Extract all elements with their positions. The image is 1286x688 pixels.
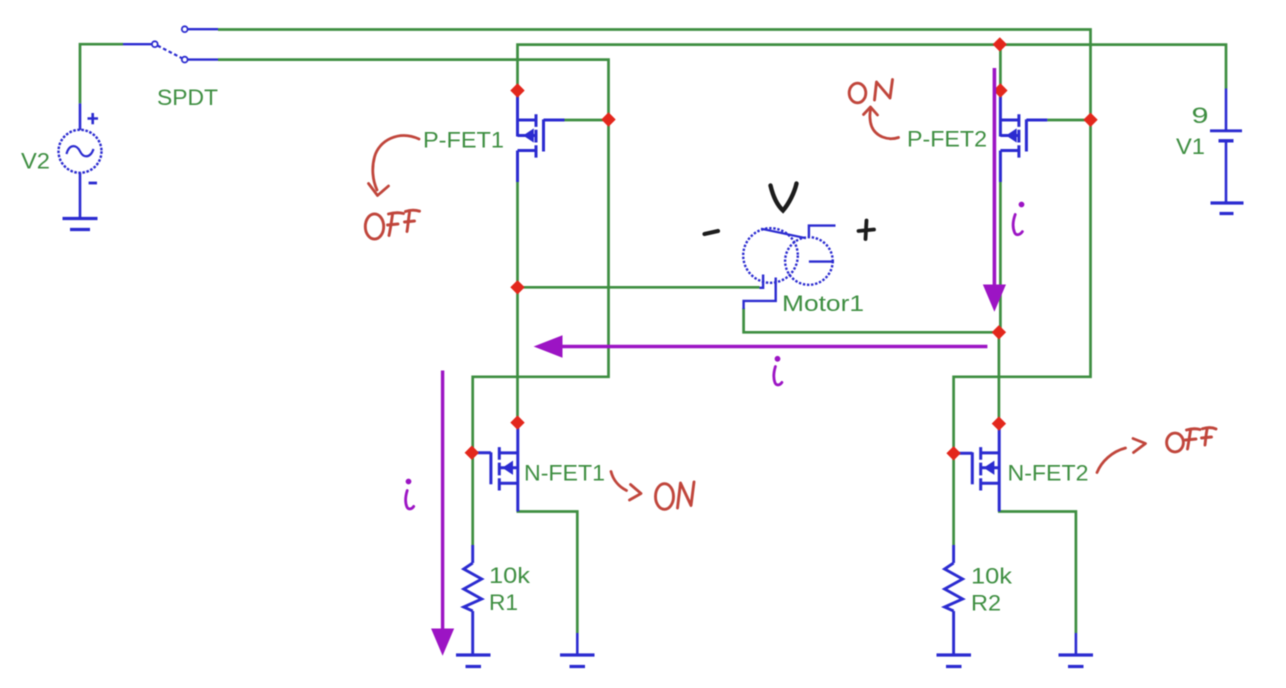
p-fet P-FET1: [518, 90, 565, 182]
annotation plus at motor: [859, 221, 875, 240]
ground below R2: [937, 655, 972, 667]
junction node: N-FET1 drain: [510, 415, 524, 429]
junction node: N-FET1 gate: [465, 446, 479, 460]
wire: node to motor minus terminal: [518, 286, 760, 289]
svg-text:V1: V1: [1176, 134, 1205, 159]
wire: P-FET1 drain down to node: [516, 182, 519, 287]
svg-text:R2: R2: [971, 591, 1001, 616]
ground below V1: [1211, 203, 1244, 214]
svg-text:N-FET2: N-FET2: [1008, 461, 1089, 486]
current arrow: down beside P-FET2: [984, 68, 1006, 311]
switch SPDT: [123, 26, 218, 62]
annotation OFF at N-FET2: [1167, 428, 1216, 452]
annotation V check above motor: [771, 184, 797, 211]
svg-text:9: 9: [1192, 103, 1209, 128]
svg-text:P-FET1: P-FET1: [423, 128, 504, 153]
ground below N-FET2 source: [1059, 633, 1094, 667]
wire: branch net C down to P-FET2 source: [999, 45, 1002, 92]
annotation ON at N-FET1: [656, 482, 695, 509]
motor Motor1: [743, 226, 835, 309]
annotation ON at P-FET2: [849, 80, 892, 103]
wire: net B (switch bottom throw to P-FET1/N-FET1 gates): [218, 60, 609, 545]
current arrow: down at bottom left: [432, 371, 454, 655]
svg-text:10k: 10k: [971, 564, 1013, 589]
current label i beside P-FET2: [1013, 202, 1024, 235]
annotation arrow to OFF at P-FET1: [369, 136, 420, 196]
current arrow: horizontal from P-FET2 drain node to left: [535, 336, 987, 357]
current label i below horizontal arrow: [774, 356, 782, 385]
wire: N-FET2 source to ground: [998, 512, 1076, 634]
ground below N-FET1 source: [560, 633, 595, 667]
junction node: supply rail branch: [993, 37, 1007, 51]
junction node: P-FET1 gate: [601, 112, 615, 126]
ground below V2: [63, 219, 98, 230]
svg-text:SPDT: SPDT: [157, 85, 218, 110]
svg-text:Motor1: Motor1: [782, 291, 864, 316]
n-fet N-FET2: [956, 424, 999, 512]
wire: switch common to V2 top: [80, 44, 123, 103]
junction node: P-FET2 gate: [1083, 113, 1097, 127]
battery V1: [1210, 89, 1242, 204]
svg-text:10k: 10k: [489, 563, 531, 588]
annotation arrow to OFF at N-FET2: [1097, 439, 1146, 473]
wire: node down to N-FET1 drain: [516, 287, 519, 424]
wire: net C supply rail (P-FET1 source up, right to V1 plus): [518, 45, 1227, 92]
svg-text:R1: R1: [489, 590, 518, 615]
wire: node down to N-FET2 drain: [998, 332, 1001, 424]
junction node: P-FET1 drain / motor: [510, 280, 524, 294]
wire: P-FET1 gate to junction: [565, 119, 609, 122]
wire: N-FET1 source to ground: [517, 512, 578, 634]
svg-text:P-FET2: P-FET2: [907, 127, 987, 152]
svg-text:N-FET1: N-FET1: [524, 461, 605, 486]
n-fet N-FET1: [475, 424, 518, 512]
junction node: N-FET2 drain: [992, 416, 1006, 430]
annotation minus at motor: [705, 231, 719, 234]
wire: P-FET2 gate to junction: [1047, 119, 1090, 122]
annotation arrow to ON at N-FET1: [611, 472, 641, 501]
junction node: P-FET2 source: [993, 83, 1007, 97]
resistor R2: [945, 545, 963, 655]
p-fet P-FET2: [1000, 90, 1047, 182]
annotation arrow to ON at P-FET2: [864, 107, 899, 139]
wire: P-FET2 drain down to node: [999, 182, 1002, 332]
junction node: P-FET2 drain / motor: [992, 325, 1006, 339]
svg-text:V2: V2: [21, 149, 50, 174]
current label i at bottom left arrow: [406, 479, 414, 509]
junction node: P-FET1 source: [510, 83, 524, 97]
wire: motor plus lead down and right to P-FET2 drain node: [744, 308, 999, 332]
ground below R1: [456, 655, 491, 667]
wire: top net A (switch top throw to P-FET2/N-FET2 gates): [218, 30, 1091, 546]
annotation OFF at P-FET1: [365, 210, 419, 239]
resistor R1: [464, 545, 482, 655]
junction node: N-FET2 gate: [946, 446, 960, 460]
voltage source V2: [59, 103, 102, 218]
